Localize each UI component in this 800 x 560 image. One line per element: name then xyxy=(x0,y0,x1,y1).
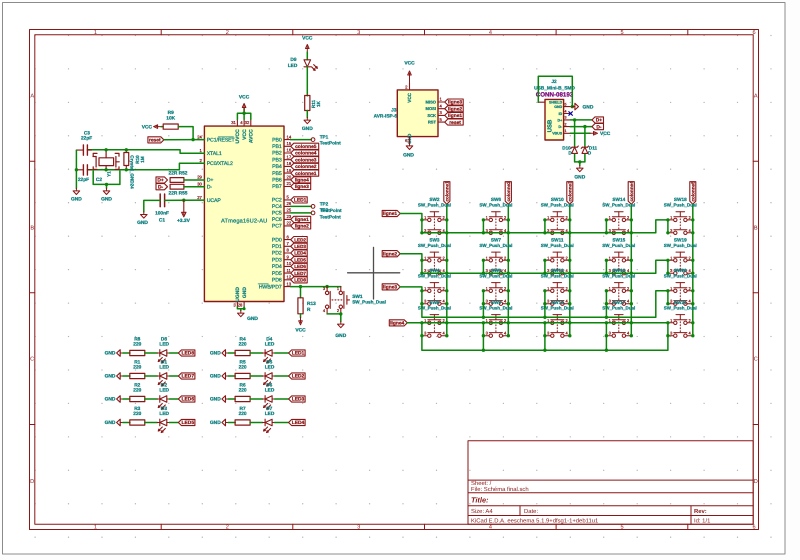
LED D4 xyxy=(263,350,275,363)
svg-text:ID: ID xyxy=(559,112,563,116)
labels ligne on PB6 PB7 xyxy=(291,177,311,183)
wire left stub vertical xyxy=(544,323,546,336)
no-connect ID pin xyxy=(569,112,573,116)
svg-text:PD1: PD1 xyxy=(272,244,282,250)
svg-text:GND: GND xyxy=(71,197,82,203)
svg-text:28: 28 xyxy=(238,303,243,308)
svg-text:SW_Push_Dual: SW_Push_Dual xyxy=(664,305,697,310)
switch SW17 xyxy=(606,315,631,338)
global label ligne1 xyxy=(382,210,400,216)
svg-text:13: 13 xyxy=(287,281,292,286)
junctions crystal xyxy=(104,148,107,151)
global label LED4 xyxy=(289,419,306,425)
global label LED1 xyxy=(289,350,306,356)
wire R9 to pin24 xyxy=(178,127,204,140)
svg-text:GND: GND xyxy=(247,316,258,322)
svg-text:1K: 1K xyxy=(316,100,321,107)
svg-text:SW_Push_Dual: SW_Push_Dual xyxy=(479,273,512,278)
wire D9 to R11 xyxy=(306,67,308,96)
svg-text:J2: J2 xyxy=(551,79,557,85)
svg-text:220: 220 xyxy=(133,341,141,347)
svg-text:LED4: LED4 xyxy=(294,251,306,256)
svg-text:3: 3 xyxy=(357,30,360,36)
wire res-led right xyxy=(250,422,263,424)
IC right pins PB xyxy=(284,139,291,141)
wire VCC to D9 xyxy=(306,52,308,60)
svg-text:GND: GND xyxy=(105,374,116,380)
svg-text:RST: RST xyxy=(428,120,437,125)
wire left stub vertical xyxy=(421,291,423,304)
wire res-led right xyxy=(250,352,263,354)
svg-text:Size: A4: Size: A4 xyxy=(471,508,493,515)
svg-text:B: B xyxy=(754,225,758,231)
bottom bus ligne4 xyxy=(422,336,668,351)
wire led-label xyxy=(169,398,178,400)
svg-text:PB2: PB2 xyxy=(272,151,282,157)
svg-text:SW_Push_Dual: SW_Push_Dual xyxy=(602,305,635,310)
diode D11 xyxy=(584,127,586,148)
svg-text:ligne2: ligne2 xyxy=(448,106,462,112)
svg-text:ligne1: ligne1 xyxy=(448,113,462,119)
svg-text:SW4: SW4 xyxy=(429,268,440,273)
svg-text:LED3: LED3 xyxy=(292,397,305,403)
global label ligne3 xyxy=(382,284,400,290)
wire left stub vertical xyxy=(421,260,423,273)
VCC power for R9 xyxy=(154,125,162,129)
switch SW18 xyxy=(668,212,693,235)
svg-text:26: 26 xyxy=(287,201,292,206)
svg-text:LED7: LED7 xyxy=(294,271,306,276)
wire left stub vertical xyxy=(421,323,423,336)
wire gnd-res right xyxy=(228,352,235,354)
wire led-label xyxy=(169,352,178,354)
wire ligne1 xyxy=(400,214,422,220)
global label D- xyxy=(156,184,168,190)
svg-text:1: 1 xyxy=(94,524,97,530)
svg-text:6: 6 xyxy=(752,524,755,530)
svg-text:LED6: LED6 xyxy=(294,264,306,269)
svg-text:colonne1: colonne1 xyxy=(295,171,317,177)
LED D1 xyxy=(157,373,169,386)
svg-text:TP1: TP1 xyxy=(320,135,329,140)
svg-text:PC7: PC7 xyxy=(272,224,282,230)
svg-text:SW_Push_Dual: SW_Push_Dual xyxy=(418,202,451,207)
cursor crosshair xyxy=(348,247,400,299)
switch SW13 xyxy=(545,315,570,338)
global label D+ xyxy=(156,177,168,183)
svg-text:32: 32 xyxy=(245,120,250,125)
column vertical wires xyxy=(446,204,448,336)
wire bus3 drop col2 xyxy=(482,304,484,318)
svg-text:Date:: Date: xyxy=(524,508,538,515)
wire D- to label xyxy=(570,126,592,128)
svg-text:ligne1: ligne1 xyxy=(295,217,309,223)
svg-text:GND: GND xyxy=(105,397,116,403)
svg-text:220: 220 xyxy=(239,411,247,417)
svg-text:LED: LED xyxy=(159,341,169,347)
svg-text:PB7: PB7 xyxy=(272,184,282,190)
switch SW9 xyxy=(483,315,508,338)
svg-text:SW5: SW5 xyxy=(429,300,440,305)
wire left stub vertical xyxy=(605,260,607,273)
wire ligne4 bus xyxy=(407,322,668,324)
wire C1 to UCAP xyxy=(165,199,205,201)
svg-text:SW2: SW2 xyxy=(429,197,440,202)
resistor R3 xyxy=(130,420,145,425)
wire bottom bus drop col3 xyxy=(544,336,546,351)
svg-text:LED1: LED1 xyxy=(294,198,307,204)
IC top power pins xyxy=(236,119,238,126)
svg-text:22R R52: 22R R52 xyxy=(169,170,188,176)
svg-text:GND: GND xyxy=(137,220,148,226)
resistor R7 xyxy=(235,420,250,425)
wire C1 left to GND xyxy=(144,200,160,212)
svg-text:6: 6 xyxy=(752,30,755,36)
svg-text:SW7: SW7 xyxy=(491,237,502,242)
svg-text:LED: LED xyxy=(159,364,169,370)
svg-text:USB: USB xyxy=(547,119,554,132)
wire left stub vertical xyxy=(605,220,607,233)
resistor R5 xyxy=(235,373,250,378)
svg-text:TP2: TP2 xyxy=(320,201,329,206)
svg-text:PB4: PB4 xyxy=(272,164,282,170)
svg-text:SW_Push_Dual: SW_Push_Dual xyxy=(479,202,512,207)
svg-text:4: 4 xyxy=(565,109,567,113)
svg-text:25: 25 xyxy=(287,208,292,213)
svg-text:GND: GND xyxy=(105,420,116,426)
LED D2 xyxy=(157,396,169,409)
svg-text:22pF: 22pF xyxy=(78,177,89,183)
wires D+ D- to IC xyxy=(184,179,205,181)
svg-text:LED: LED xyxy=(265,341,275,347)
svg-text:colonne2: colonne2 xyxy=(506,181,511,202)
resistor R6 xyxy=(235,396,250,401)
svg-text:colonne5: colonne5 xyxy=(691,181,696,202)
svg-text:GND: GND xyxy=(302,126,313,132)
wire gnd-res xyxy=(123,375,130,377)
svg-text:VBUS: VBUS xyxy=(552,132,563,136)
svg-text:5: 5 xyxy=(621,30,624,36)
svg-text:PB6: PB6 xyxy=(272,178,282,184)
svg-text:C3: C3 xyxy=(84,130,90,136)
svg-text:LED: LED xyxy=(159,411,169,417)
wire ligne3 xyxy=(400,287,422,291)
IC right pins PC xyxy=(284,199,291,201)
IC U1 ATmega16U2-AU body xyxy=(204,126,284,301)
svg-text:PC2: PC2 xyxy=(272,198,282,204)
svg-text:PC5: PC5 xyxy=(272,211,282,217)
wire left stub vertical xyxy=(605,291,607,304)
svg-text:GND: GND xyxy=(583,104,594,110)
global label ligne2 at J3 xyxy=(445,106,464,112)
svg-text:PC6: PC6 xyxy=(272,217,282,223)
svg-text:2: 2 xyxy=(565,122,567,126)
global label D+ usb xyxy=(592,117,604,123)
svg-text:SW15: SW15 xyxy=(612,237,625,242)
svg-text:SW10: SW10 xyxy=(551,197,564,202)
svg-text:ligne3: ligne3 xyxy=(383,285,397,291)
wire res-led right xyxy=(250,375,263,377)
switch SW2 xyxy=(422,212,447,235)
svg-text:GND: GND xyxy=(101,197,112,203)
svg-text:XTAL1: XTAL1 xyxy=(207,151,222,157)
VCC at IC top xyxy=(237,113,250,119)
svg-text:SW_Push_Dual: SW_Push_Dual xyxy=(541,305,574,310)
global label colonne2 vertical xyxy=(505,182,511,205)
switch SW20 xyxy=(668,283,693,306)
svg-text:SW_Push_Dual: SW_Push_Dual xyxy=(541,273,574,278)
switch SW7 xyxy=(483,252,508,275)
svg-text:VCC: VCC xyxy=(295,327,306,333)
svg-text:SHIELD: SHIELD xyxy=(549,101,563,105)
svg-text:colonne1: colonne1 xyxy=(445,181,450,202)
svg-text:27: 27 xyxy=(197,195,202,200)
switch SW11 xyxy=(545,252,570,275)
svg-text:LED: LED xyxy=(265,387,275,393)
svg-text:ligne4: ligne4 xyxy=(390,321,404,327)
testpoint TP3 xyxy=(291,212,312,214)
svg-text:GND: GND xyxy=(210,351,221,357)
svg-text:D-: D- xyxy=(207,184,213,190)
svg-text:PD2: PD2 xyxy=(272,251,282,257)
svg-text:PC1/RESET: PC1/RESET xyxy=(207,137,236,143)
LED D6 xyxy=(263,396,275,409)
capacitor C1 xyxy=(160,194,164,207)
svg-text:LED1: LED1 xyxy=(292,351,305,357)
svg-text:colonne2: colonne2 xyxy=(295,164,317,170)
svg-text:KiCad E.D.A. eeschema 5.1.9+d: KiCad E.D.A. eeschema 5.1.9+dfsg1-1+deb1… xyxy=(471,517,598,524)
svg-text:VCC: VCC xyxy=(302,36,313,42)
svg-text:SW_Push_Dual: SW_Push_Dual xyxy=(418,305,451,310)
svg-text:PD0: PD0 xyxy=(272,237,282,243)
connector J3 AVR-ISP-6 xyxy=(397,90,438,137)
svg-text:ATmega16U2-AU: ATmega16U2-AU xyxy=(221,219,267,225)
IC bottom power pins xyxy=(236,302,238,307)
svg-text:SW_Push_Dual: SW_Push_Dual xyxy=(602,243,635,248)
svg-text:reset: reset xyxy=(449,120,461,126)
svg-text:VCC: VCC xyxy=(407,92,412,102)
resistor R2 xyxy=(130,396,145,401)
IC left pins xyxy=(198,139,205,141)
wire left stub vertical xyxy=(482,220,484,233)
svg-text:D-: D- xyxy=(596,124,602,130)
svg-text:PC4: PC4 xyxy=(272,204,282,210)
svg-text:220: 220 xyxy=(133,411,141,417)
global label LED7 xyxy=(178,373,195,379)
svg-text:30: 30 xyxy=(197,181,202,186)
svg-text:SW_Push_Dual: SW_Push_Dual xyxy=(664,243,697,248)
svg-text:TestPoint: TestPoint xyxy=(320,214,341,219)
labels colonne on PB1-PB5 xyxy=(291,143,319,149)
svg-text:SW9: SW9 xyxy=(491,300,502,305)
svg-text:D-: D- xyxy=(158,184,164,190)
svg-text:MISO: MISO xyxy=(426,100,437,105)
USB shield pin left xyxy=(538,101,545,103)
resistor R9 xyxy=(163,124,178,129)
svg-text:GND: GND xyxy=(210,420,221,426)
svg-text:A: A xyxy=(754,93,758,99)
svg-text:GND: GND xyxy=(403,153,414,159)
wire left stub vertical xyxy=(667,291,669,304)
svg-text:SW12: SW12 xyxy=(551,268,564,273)
switch SW6 xyxy=(483,212,508,235)
LED D7 xyxy=(263,419,275,432)
capacitor C2 xyxy=(83,165,87,175)
svg-text:HWB/PD7: HWB/PD7 xyxy=(259,284,282,290)
IC right pins PD xyxy=(284,239,291,241)
svg-text:4: 4 xyxy=(489,30,492,36)
wire SW1 to GND xyxy=(327,314,341,322)
svg-text:ligne2: ligne2 xyxy=(295,224,309,230)
wire reset label xyxy=(164,139,193,141)
connector J2 USB body xyxy=(545,99,564,140)
svg-text:29: 29 xyxy=(197,175,202,180)
wire caps to GND xyxy=(75,150,77,188)
svg-text:J3: J3 xyxy=(391,107,397,113)
svg-text:5: 5 xyxy=(565,102,567,106)
global label LED3 xyxy=(289,396,306,402)
wire D+ to label xyxy=(570,119,592,121)
wire left stub vertical xyxy=(482,260,484,273)
wire bottom bus drop col4 xyxy=(605,336,607,351)
svg-text:SW20: SW20 xyxy=(674,268,687,273)
resistor R1 xyxy=(130,373,145,378)
svg-text:PD6: PD6 xyxy=(272,278,282,284)
switch SW15 xyxy=(606,252,631,275)
switch SW14 xyxy=(606,212,631,235)
wire crystal case to GND xyxy=(93,171,120,184)
svg-text:ligne2: ligne2 xyxy=(383,251,397,257)
wire res-led right xyxy=(250,398,263,400)
switch SW19 xyxy=(668,252,693,275)
svg-text:LED: LED xyxy=(159,387,169,393)
svg-text:D+: D+ xyxy=(557,118,562,122)
resistor R55 xyxy=(170,184,184,189)
svg-text:R9: R9 xyxy=(168,110,174,116)
svg-text:Rev:: Rev: xyxy=(694,508,707,515)
svg-text:SW_Push_Dual: SW_Push_Dual xyxy=(664,273,697,278)
svg-text:LED8: LED8 xyxy=(182,351,195,357)
wire bus3 drop col4 xyxy=(605,304,607,318)
switch SW21 xyxy=(668,315,693,338)
svg-text:11: 11 xyxy=(287,268,292,273)
global label ligne1 at J3 xyxy=(445,112,464,118)
svg-text:MOSI: MOSI xyxy=(426,106,436,111)
svg-text:ligne4: ligne4 xyxy=(295,178,309,184)
svg-text:C: C xyxy=(754,357,758,363)
svg-text:D: D xyxy=(30,479,34,485)
svg-text:22pF: 22pF xyxy=(81,136,92,142)
svg-text:SW19: SW19 xyxy=(674,237,687,242)
global label LED5 xyxy=(178,419,195,425)
wire left stub vertical xyxy=(482,291,484,304)
wire gnd-res right xyxy=(228,422,235,424)
LED D8 xyxy=(157,350,169,363)
svg-text:4: 4 xyxy=(489,524,492,530)
LED D9 xyxy=(304,60,317,71)
svg-text:Title:: Title: xyxy=(471,496,489,505)
svg-text:31: 31 xyxy=(231,120,236,125)
LED D5 xyxy=(263,373,275,386)
svg-text:D+: D+ xyxy=(157,178,164,184)
global label ligne3 at J3 xyxy=(445,99,464,105)
wire gnd-res right xyxy=(228,375,235,377)
svg-text:SW_Push_Dual: SW_Push_Dual xyxy=(352,300,386,305)
global label LED6 xyxy=(178,396,195,402)
svg-text:GND: GND xyxy=(105,351,116,357)
svg-text:LED6: LED6 xyxy=(182,397,195,403)
svg-text:VCC: VCC xyxy=(142,124,153,130)
svg-text:LED7: LED7 xyxy=(182,374,195,380)
svg-text:220: 220 xyxy=(239,387,247,393)
row bus 1 xyxy=(422,220,668,233)
svg-text:24: 24 xyxy=(197,134,202,139)
wire left stub vertical xyxy=(605,323,607,336)
power +3.3V xyxy=(182,200,186,217)
row bus 3 xyxy=(422,291,668,318)
wire led-label xyxy=(169,422,178,424)
resistor R11 xyxy=(305,96,310,111)
labels LED2-LED8 on PD0-PD6 xyxy=(291,237,308,243)
global label reset at J3 xyxy=(445,119,464,125)
svg-text:D+: D+ xyxy=(207,178,214,184)
wire res-led xyxy=(145,352,158,354)
svg-text:Crystal_GND24: Crystal_GND24 xyxy=(130,155,135,189)
wire XTAL2 net xyxy=(87,163,204,170)
svg-text:22R R55: 22R R55 xyxy=(169,191,188,197)
svg-text:D9: D9 xyxy=(290,57,296,63)
resistor R52 xyxy=(170,178,184,183)
svg-text:220: 220 xyxy=(133,387,141,393)
J3 VCC pin xyxy=(409,83,411,90)
svg-text:SW_Push_Dual: SW_Push_Dual xyxy=(602,273,635,278)
svg-text:SCK: SCK xyxy=(427,113,436,118)
svg-text:SW_Push_Dual: SW_Push_Dual xyxy=(541,243,574,248)
wire VCC-R9 xyxy=(161,126,163,128)
svg-text:SW21: SW21 xyxy=(674,300,687,305)
resistor R10 xyxy=(124,153,129,166)
switch SW16 xyxy=(606,283,631,306)
svg-text:LED: LED xyxy=(265,364,275,370)
ground GND left xyxy=(73,188,80,194)
crystal Y1 xyxy=(93,150,119,170)
svg-text:14: 14 xyxy=(287,134,292,139)
global label colonne1 vertical xyxy=(444,182,450,205)
switch SW4 xyxy=(422,283,447,306)
svg-text:SW3: SW3 xyxy=(429,237,440,242)
wire left stub vertical xyxy=(544,291,546,304)
wire led-label xyxy=(169,375,178,377)
GND at IC bottom xyxy=(237,307,244,309)
svg-text:LED: LED xyxy=(288,63,298,69)
wire left stub vertical xyxy=(544,220,546,233)
testpoint TP1 xyxy=(291,139,312,141)
switch SW12 xyxy=(545,283,570,306)
svg-text:C: C xyxy=(30,357,34,363)
wire bus3 drop col3 xyxy=(544,304,546,318)
switch SW1 rotated xyxy=(325,287,349,314)
wire left stub vertical xyxy=(482,323,484,336)
svg-text:220: 220 xyxy=(133,364,141,370)
svg-text:220: 220 xyxy=(239,364,247,370)
svg-text:SW_Push_Dual: SW_Push_Dual xyxy=(541,202,574,207)
svg-text:2: 2 xyxy=(226,524,229,530)
svg-text:ligne1: ligne1 xyxy=(383,211,397,217)
svg-text:VCC: VCC xyxy=(239,95,250,101)
svg-text:SW14: SW14 xyxy=(612,197,625,202)
svg-text:VCC: VCC xyxy=(242,129,248,140)
svg-text:reset: reset xyxy=(149,138,161,144)
